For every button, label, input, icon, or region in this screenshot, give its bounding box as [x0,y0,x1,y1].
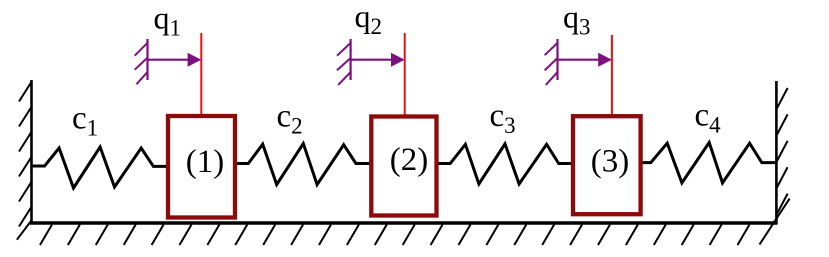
mass (2) displacement line [404,33,406,116]
spring c2 [237,144,371,185]
coordinate q3 arrow [558,53,612,67]
wall right hatching [760,88,790,245]
coordinate q2 reference post [350,39,352,80]
mass (3) displacement line [611,35,613,116]
coordinate q3 reference hatching [545,43,558,85]
mass (2) [371,117,436,216]
coordinate q1 reference hatching [135,43,148,84]
wall right [775,81,778,224]
coordinate q1 arrow [148,53,202,67]
coordinate q1 reference post [146,39,148,80]
svg-text:(3): (3) [591,144,629,180]
floor [30,221,778,224]
svg-text:(1): (1) [186,144,224,180]
svg-text:(2): (2) [390,142,428,178]
mass (3) [573,116,641,214]
spring c3 [439,144,573,184]
wall left [30,80,33,224]
coordinate q2 arrow [351,53,405,67]
coordinate q2 reference hatching [337,43,351,85]
mass (1) [168,116,235,218]
wall left hatching [17,81,32,240]
coordinate q3 reference post [556,39,558,80]
spring c4 [640,143,776,183]
floor hatching [40,225,750,246]
mass (1) displacement line [200,33,202,116]
spring c1 [31,147,166,188]
